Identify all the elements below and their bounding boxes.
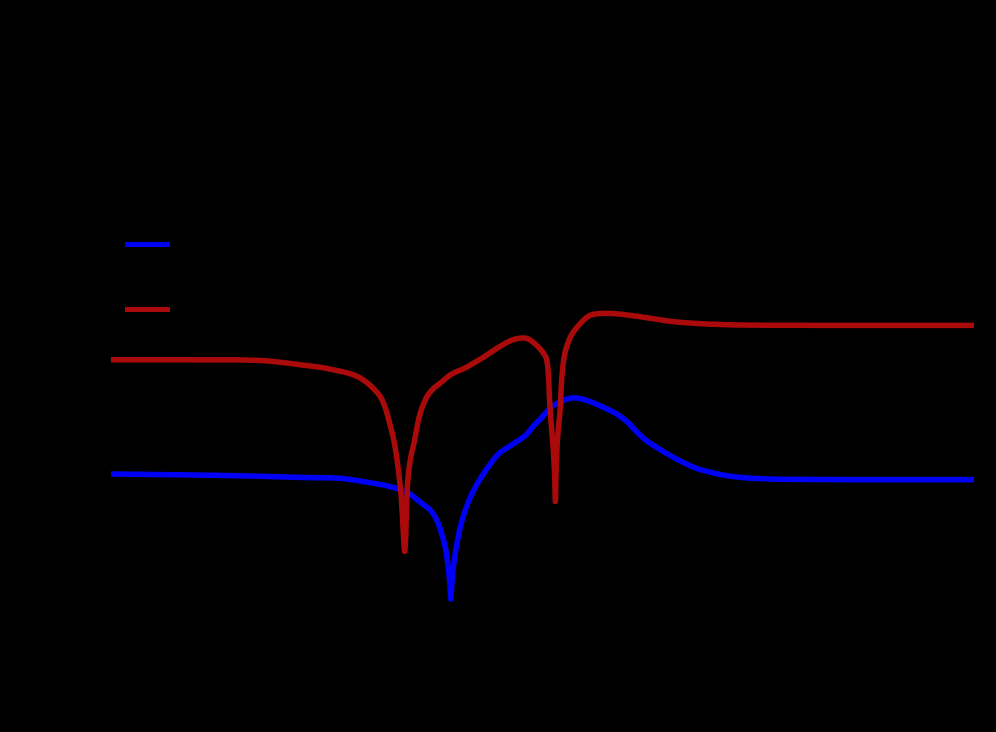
legend swatch red (125, 307, 170, 312)
red curve (reflection) (111, 313, 974, 551)
legend swatch blue (125, 242, 170, 247)
blue curve (transmission) (111, 398, 974, 599)
